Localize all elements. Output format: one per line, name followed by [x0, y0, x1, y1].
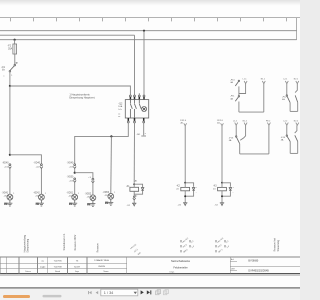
bus line L2	[0, 34, 135, 36]
node on L1 feeding starter pin4	[143, 30, 145, 32]
svg-text:-Q1: -Q1	[1, 66, 6, 69]
wire L3 node down to fuse	[14, 40, 16, 44]
svg-text:-XD51: -XD51	[67, 193, 74, 195]
frame column ticks	[11, 18, 287, 22]
switch Q1	[1, 63, 18, 78]
nav last-page button	[147, 290, 152, 294]
motor wire end tick	[141, 135, 146, 137]
note text above starter	[69, 94, 95, 100]
rotated cable label 3	[74, 234, 100, 252]
svg-text:-2D5: -2D5	[104, 195, 110, 197]
svg-text:Steckdosen i.S.: Steckdosen i.S.	[63, 233, 66, 251]
svg-text:-XD41: -XD41	[2, 193, 9, 195]
svg-text:-2D3: -2D3	[68, 196, 74, 198]
wire destination scribble B	[181, 236, 196, 254]
rail y136	[75, 136, 112, 164]
motor starter Q2	[118, 95, 148, 123]
ground PE under XD42	[36, 200, 44, 206]
wire node C down to lamp branch	[110, 136, 113, 193]
svg-text:Urspr.: Urspr.	[169, 270, 175, 273]
wire starter pin3 to motor arrow	[143, 123, 145, 136]
ground PE under XD51	[69, 200, 77, 206]
svg-text:Einspeisung: Einspeisung	[27, 238, 30, 252]
rail node B to branch XD41	[10, 155, 42, 164]
svg-text:-XD40: -XD40	[34, 162, 41, 164]
group C bottom rail	[240, 153, 269, 155]
socket XD53	[103, 192, 117, 199]
wire down to socket XD42	[40, 169, 42, 195]
orange progress streak overlay	[3, 295, 30, 298]
relay K3	[213, 182, 235, 203]
socket XD42	[33, 193, 47, 200]
socket XD41 (circle with X)	[2, 193, 16, 200]
svg-text:-2D1: -2D1	[3, 196, 9, 198]
plug terminal on branch x41	[34, 162, 43, 168]
pin stubs bottom (black)	[127, 118, 129, 121]
group D row2: wire source arrow 1	[283, 120, 288, 135]
svg-text:12EA09Y RUA: 12EA09Y RUA	[94, 259, 109, 262]
svg-text:-2D4: -2D4	[86, 196, 92, 198]
plug terminal on branch x93	[88, 177, 94, 183]
svg-text:-2D2: -2D2	[35, 196, 41, 198]
svg-text:1 / 34: 1 / 34	[104, 291, 114, 295]
wire fuse to switch Q1	[14, 54, 16, 64]
indicator circle with X	[142, 107, 147, 112]
svg-text:5wt37: 5wt37	[74, 265, 81, 268]
nav first-page button	[88, 291, 92, 294]
rotated cable label 2	[63, 233, 66, 251]
wire Q1 down to node A	[9, 72, 11, 86]
group D row2: breaker F14	[281, 135, 291, 153]
svg-text:xx: xx	[118, 116, 120, 118]
svg-text:x: x	[145, 133, 146, 135]
starter pin3 stub	[138, 93, 140, 95]
socket XD51	[67, 193, 81, 200]
svg-text:Bearb: Bearb	[55, 270, 60, 273]
terminal arrow under K2	[178, 203, 188, 207]
svg-text:-XD53: -XD53	[103, 192, 110, 194]
svg-text:-F14: -F14	[281, 137, 286, 139]
svg-text:35A: 35A	[8, 48, 13, 51]
svg-text:16A: 16A	[118, 105, 122, 108]
rotated cable label 4	[274, 238, 280, 252]
nav prev button	[96, 291, 99, 294]
node B	[9, 154, 11, 156]
feed arrow for relay K3	[217, 120, 224, 126]
terminal arrow under K3	[214, 203, 224, 207]
rotated cable label 1	[23, 234, 29, 252]
gray streak	[43, 295, 62, 298]
contacts inside	[130, 100, 141, 118]
svg-text:-XD40: -XD40	[2, 162, 9, 164]
svg-text:7L27/38: 7L27/38	[54, 266, 63, 268]
svg-text:7L27/35: 7L27/35	[54, 260, 63, 262]
pin circles bottom	[127, 121, 129, 123]
bus line L3	[0, 39, 297, 41]
group C row2: wire source arrow 1	[233, 120, 238, 136]
svg-text:BY06680: BY06680	[248, 259, 259, 262]
fuse F1	[8, 44, 17, 54]
ground PE under XD52	[87, 201, 95, 207]
group B row1: wire source arrow 1	[283, 79, 288, 95]
ground PE under XD41	[4, 200, 12, 206]
pin stubs top (black)	[129, 97, 131, 100]
svg-text:-F10: -F10	[230, 79, 235, 81]
svg-text:Anl.: Anl.	[231, 258, 235, 261]
left vertical node A down to node B	[9, 86, 11, 155]
svg-text:CHRIS: CHRIS	[98, 266, 105, 268]
svg-text:13/2.4: 13/2.4	[180, 120, 187, 122]
node D	[74, 172, 76, 174]
nav next button	[141, 290, 144, 294]
page number field	[101, 289, 138, 296]
node C on rail y136	[110, 135, 112, 137]
group B row1: breaker F12	[282, 95, 290, 112]
svg-text:x: x	[3, 75, 4, 77]
frame top line	[0, 17, 300, 19]
wire down to relay K3	[221, 126, 223, 183]
frame right border segment	[296, 18, 298, 40]
terminal arrow under K1	[127, 203, 137, 207]
plug terminal on branch x10	[2, 162, 11, 168]
svg-text:Einspeisung Hauptvert.: Einspeisung Hauptvert.	[69, 97, 95, 100]
svg-text:eagle: eagle	[40, 266, 46, 268]
group A bottom rail	[239, 111, 264, 113]
relay K2	[176, 182, 198, 203]
wire bus L1 node down to starter pin4	[143, 31, 145, 96]
svg-text:Reserve 230V: Reserve 230V	[74, 234, 77, 250]
svg-text:-F12: -F12	[282, 96, 287, 98]
suppressor diode	[192, 188, 194, 191]
feed arrow for relay K2	[180, 120, 187, 126]
group A row1: breaker F10 upper	[230, 79, 239, 95]
wire destination scribble A	[129, 243, 142, 256]
svg-text:-F13: -F13	[229, 137, 234, 139]
svg-text:-XD42: -XD42	[33, 193, 40, 195]
toolbar	[0, 287, 300, 289]
group A row1: breaker F10 lower	[230, 96, 239, 113]
relay K1	[126, 180, 144, 203]
wire destination scribble C	[216, 236, 231, 254]
group C row2: breaker F13	[229, 136, 240, 154]
rail from node A to starter pin1	[10, 86, 130, 95]
suppressor diode	[229, 188, 231, 191]
plug terminal on branch x75 lower	[67, 177, 76, 183]
wire starter pin2 down to relay K1	[133, 123, 135, 183]
title block texts	[25, 258, 269, 273]
page	[0, 0, 300, 6]
bus line L1	[0, 30, 297, 32]
tool icon 2	[163, 290, 168, 295]
pin circles top	[130, 95, 132, 97]
plug terminal on branch x75 upper	[67, 162, 76, 168]
title block table	[0, 257, 300, 275]
svg-text:Netzschaltwerke: Netzschaltwerke	[171, 259, 191, 263]
body box	[125, 100, 148, 118]
ground PE under XD53	[105, 199, 113, 205]
svg-text:Name: Name	[103, 271, 108, 273]
group B bottom rail	[290, 110, 298, 112]
svg-text:13/2.6: 13/2.6	[217, 120, 224, 122]
rail node D to branch x93	[75, 173, 93, 179]
group A wire source arrow 1	[239, 79, 247, 94]
socket XD52	[85, 193, 96, 200]
group D wire source arrow 2	[294, 120, 299, 153]
node on L3 feeding fuse F1	[14, 39, 16, 41]
svg-text:Feldverteiler: Feldverteiler	[173, 266, 187, 270]
svg-text:-XD50: -XD50	[67, 177, 74, 179]
group C wire source arrow 3	[266, 120, 271, 154]
tool icon 1	[156, 290, 161, 295]
svg-text:-Q2: -Q2	[118, 102, 123, 105]
group B wire source arrow 2	[294, 79, 299, 112]
svg-text:DVR4502202D54B: DVR4502202D54B	[248, 269, 269, 272]
group D bottom rail	[290, 152, 298, 154]
svg-text:Gepr: Gepr	[75, 270, 80, 273]
svg-text:Steuerung: Steuerung	[277, 239, 280, 251]
group C wire source arrow 2	[240, 120, 248, 140]
node A	[9, 85, 11, 87]
svg-text:Reserve: Reserve	[96, 243, 99, 253]
wire bus L2 down to starter pin2	[134, 35, 136, 95]
wire starter pin1 down to rail	[111, 123, 128, 137]
group A wire source arrow 2	[261, 79, 266, 113]
svg-text:-XD52: -XD52	[85, 193, 92, 195]
wire down to socket XD41	[9, 169, 11, 195]
wire down to relay K2	[184, 126, 186, 183]
svg-text:-XD40: -XD40	[67, 162, 74, 164]
svg-text:Datum: Datum	[25, 270, 31, 273]
